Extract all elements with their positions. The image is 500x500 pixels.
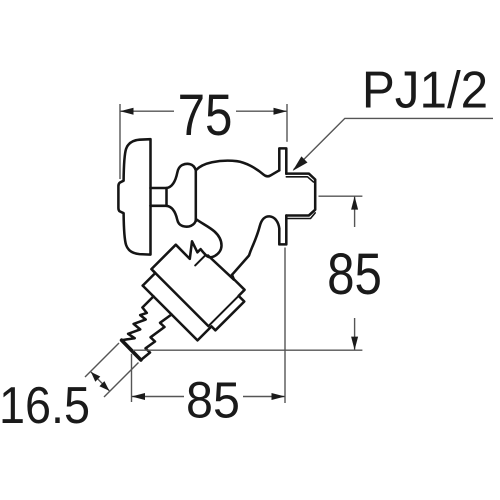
branch lower-right: lower boss, rail, block side, serration face bbox=[143, 275, 245, 341]
bottom tab bbox=[279, 216, 286, 245]
PJ1/2 leader bbox=[294, 118, 494, 169]
16.5 upper arrow bbox=[91, 372, 100, 382]
handle stem bbox=[151, 188, 167, 206]
plate/block contact internal line bbox=[153, 271, 209, 327]
16.5 extension lines bbox=[85, 343, 119, 377]
svg-text:85: 85 bbox=[327, 242, 382, 307]
bottom 85 dimension bbox=[131, 354, 133, 402]
lower serrations bbox=[141, 315, 172, 361]
85 bottom right arrow bbox=[272, 393, 286, 400]
male thread PJ1/2 bbox=[286, 174, 315, 216]
neck upper side + upper serrations bbox=[122, 296, 154, 340]
collar bore internal line bbox=[195, 255, 206, 266]
handle wheel bbox=[118, 139, 150, 254]
svg-text:85: 85 bbox=[186, 371, 240, 428]
75 left arrow bbox=[120, 108, 134, 115]
85 right bottom arrow bbox=[351, 337, 358, 350]
body top edge bbox=[196, 161, 279, 177]
16.5 arrow shaft bbox=[91, 372, 109, 391]
plate lower side internal line (under rail) bbox=[209, 296, 238, 325]
svg-text:PJ1/2: PJ1/2 bbox=[362, 60, 488, 118]
tip face bbox=[122, 340, 141, 360]
thread top inner chamfer line bbox=[286, 177, 313, 182]
bonnet right edge bbox=[195, 170, 198, 221]
right 85 dimension bbox=[319, 195, 363, 197]
top tab bbox=[279, 148, 286, 173]
75 right arrow bbox=[274, 108, 288, 115]
75 dimension bbox=[119, 104, 121, 179]
tube base internal line bbox=[208, 256, 234, 280]
85 bottom left arrow bbox=[132, 393, 146, 400]
16.5 lower arrow bbox=[99, 381, 109, 391]
bonnet bell bottom / arch bbox=[167, 206, 196, 227]
svg-text:16.5: 16.5 bbox=[0, 377, 90, 435]
svg-text:75: 75 bbox=[178, 83, 233, 148]
body bottom hump and branch upper-right curve bbox=[232, 216, 279, 274]
85 right top arrow bbox=[351, 196, 358, 209]
thread bottom inner chamfer line bbox=[286, 213, 315, 219]
body lower-right lobe + branch tube upper side + boss spike + plate top face bbox=[143, 219, 222, 286]
bonnet bell top bbox=[167, 164, 196, 188]
arrowheads bbox=[91, 108, 358, 400]
PJ1/2 leader arrow bbox=[293, 156, 308, 171]
